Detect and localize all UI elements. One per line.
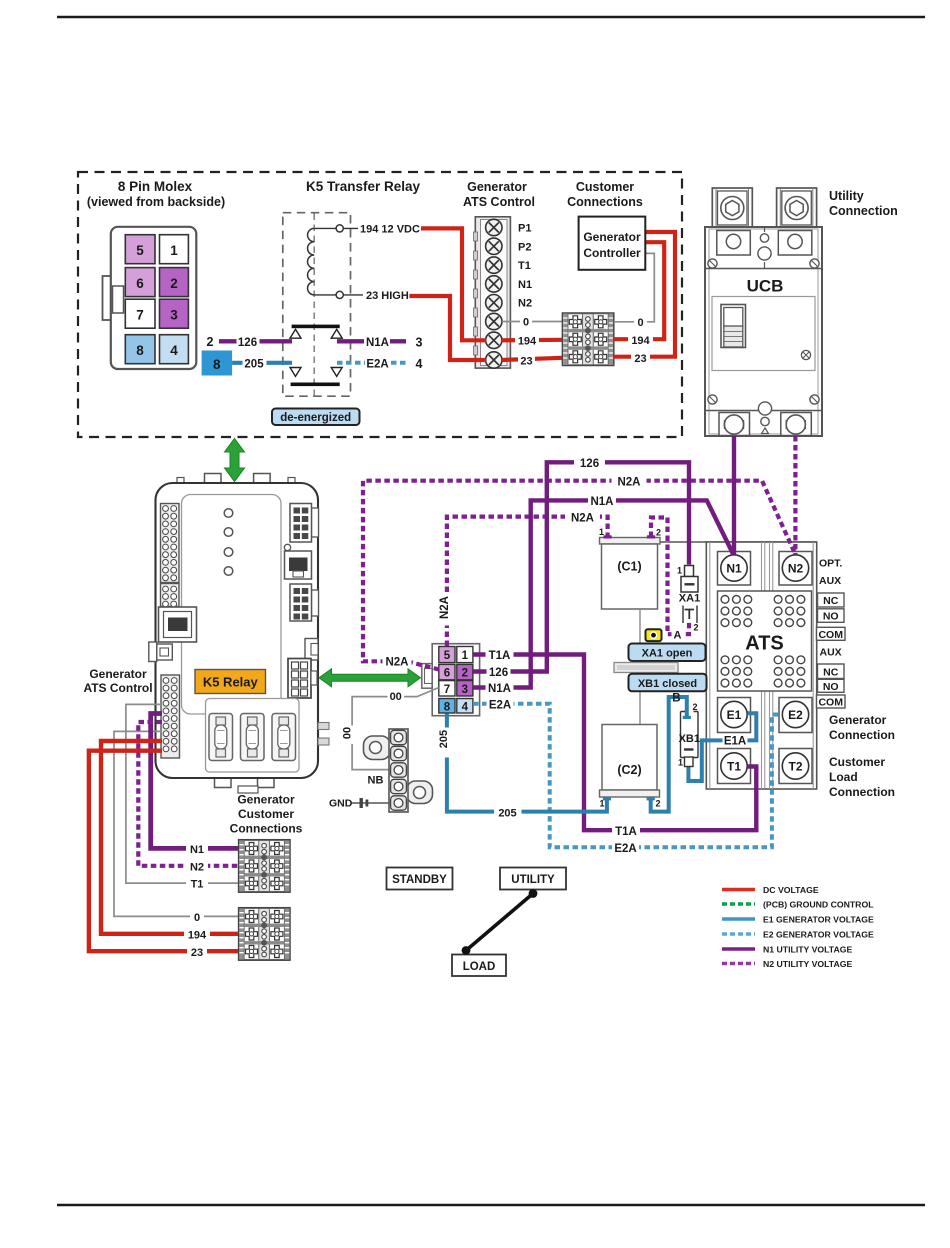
legend N2 utility voltage	[722, 959, 852, 969]
svg-text:N1A: N1A	[488, 683, 511, 695]
ATS terminal E1	[718, 698, 751, 733]
svg-text:194: 194	[631, 335, 650, 347]
board left tab	[149, 642, 173, 662]
svg-text:N1A: N1A	[366, 337, 389, 349]
svg-text:1: 1	[599, 527, 604, 537]
wire 126 from pin2 to relay	[219, 339, 292, 343]
indicator yellow	[646, 629, 662, 641]
callout de-energized	[272, 409, 360, 426]
label T1	[186, 876, 208, 890]
ATS terminal N2	[779, 552, 812, 586]
svg-text:UTILITY: UTILITY	[511, 874, 555, 886]
svg-text:(PCB) GROUND CONTROL: (PCB) GROUND CONTROL	[763, 899, 874, 909]
label N2A rotated	[440, 596, 454, 626]
relay K5 dashed outline	[283, 213, 351, 397]
board right connector A	[290, 504, 319, 543]
wire E1A net	[688, 713, 756, 781]
breaker UCB center pivot top	[758, 227, 771, 269]
wire 194 red	[101, 741, 239, 934]
breaker UCB corner screws	[708, 259, 819, 404]
svg-text:T1: T1	[518, 260, 531, 272]
wire N1A relay to pin3	[337, 339, 406, 343]
svg-text:0: 0	[194, 912, 200, 924]
svg-text:Generator: Generator	[829, 713, 887, 727]
C1 pin tabs	[604, 535, 612, 538]
ATS terminal N1	[718, 552, 751, 586]
label 126 stub	[487, 665, 511, 679]
terminal screw T1	[486, 257, 502, 273]
label N2A top2	[565, 510, 600, 524]
svg-text:3: 3	[416, 336, 423, 350]
svg-text:6: 6	[444, 668, 450, 680]
wire N1A net	[473, 500, 733, 687]
legend E2 generator voltage	[722, 929, 874, 939]
svg-text:N2: N2	[788, 562, 804, 576]
breaker UCB toggle	[721, 305, 746, 348]
node pin 8 highlight	[202, 351, 233, 376]
connector J molex body	[103, 227, 197, 369]
svg-text:194: 194	[518, 335, 537, 347]
svg-text:COM: COM	[818, 629, 843, 641]
svg-text:NO: NO	[823, 681, 839, 693]
label E1A	[723, 734, 748, 748]
label N1A stub	[486, 681, 514, 695]
svg-text:E2A: E2A	[366, 359, 388, 371]
label E2A	[365, 356, 389, 371]
svg-text:8: 8	[444, 701, 451, 713]
label 0 left	[520, 314, 532, 328]
svg-text:GND: GND	[329, 798, 353, 810]
svg-text:(C2): (C2)	[617, 763, 641, 777]
svg-text:3: 3	[170, 308, 178, 323]
svg-text:0: 0	[637, 317, 643, 329]
svg-text:00: 00	[342, 727, 354, 739]
svg-text:0: 0	[523, 317, 529, 329]
board controller PCB outline	[156, 474, 319, 794]
svg-text:205: 205	[438, 730, 450, 748]
terminal screw 0	[486, 313, 502, 329]
svg-text:2: 2	[694, 623, 699, 633]
page top rule	[57, 16, 925, 18]
svg-text:194 12 VDC: 194 12 VDC	[360, 224, 420, 236]
svg-text:Connection: Connection	[829, 728, 895, 742]
svg-text:STANDBY: STANDBY	[392, 874, 447, 886]
svg-text:Generator: Generator	[467, 180, 527, 194]
callout XB1 closed	[629, 674, 707, 692]
board right edge stubs	[318, 723, 329, 730]
wire 205 from pin8 to relay	[232, 361, 292, 365]
wire 23 HIGH red	[409, 296, 486, 360]
breaker UCB body	[705, 227, 822, 436]
svg-text:5: 5	[444, 650, 451, 662]
page bottom rule	[57, 1204, 925, 1206]
molex pin 1	[160, 235, 189, 264]
molex pin 5	[125, 235, 155, 264]
wire C2 pin2 to XB1	[651, 697, 687, 812]
label 194 right	[628, 333, 653, 347]
label 126 top	[574, 456, 605, 470]
switch position line	[462, 889, 538, 955]
svg-text:K5 Transfer Relay: K5 Transfer Relay	[306, 179, 421, 194]
breaker UCB bottom terminal right	[781, 413, 812, 436]
svg-text:N2: N2	[518, 298, 532, 310]
molex pin 7	[125, 299, 155, 328]
switch XA1	[677, 566, 700, 633]
label 126	[237, 333, 260, 348]
ATS terminal E2	[779, 698, 812, 733]
ATS container	[706, 542, 816, 789]
wire N1 purple	[151, 714, 239, 849]
svg-text:AUX: AUX	[819, 575, 841, 587]
svg-text:ATS: ATS	[745, 633, 784, 655]
svg-text:T1: T1	[191, 879, 204, 891]
svg-text:205: 205	[498, 808, 516, 820]
svg-text:K5 Relay: K5 Relay	[203, 675, 259, 690]
relay K5 coil	[308, 225, 363, 299]
svg-text:OPT.: OPT.	[819, 558, 842, 570]
terminal screw P2	[486, 238, 502, 254]
breaker UCB upper terminal left	[717, 231, 751, 256]
legend N1 utility voltage	[722, 944, 852, 954]
breaker UCB center pivot bottom	[758, 402, 771, 434]
svg-text:T1A: T1A	[489, 650, 511, 662]
ATS middle body	[718, 591, 812, 691]
terminal screw 194	[486, 332, 502, 348]
wire N2 from UCB dashed	[793, 436, 797, 554]
svg-text:N1 UTILITY VOLTAGE: N1 UTILITY VOLTAGE	[763, 944, 852, 954]
ground bus NB	[342, 688, 439, 813]
svg-text:00: 00	[390, 691, 402, 703]
wire 205 net	[447, 714, 607, 812]
fuse F3	[272, 714, 296, 761]
svg-text:(viewed from backside): (viewed from backside)	[87, 195, 225, 209]
svg-text:Connections: Connections	[567, 195, 643, 209]
label 205 rotated	[440, 728, 454, 758]
svg-text:T2: T2	[788, 760, 802, 774]
svg-text:8 Pin Molex: 8 Pin Molex	[118, 179, 193, 194]
svg-text:A: A	[674, 630, 682, 642]
relay K5 armature link	[313, 214, 315, 396]
wire 23 red	[89, 751, 239, 952]
svg-text:23: 23	[191, 947, 203, 959]
label N2A top1	[612, 474, 647, 488]
label 0 right	[634, 315, 647, 329]
plug pin 2	[457, 664, 473, 679]
svg-text:126: 126	[489, 667, 508, 679]
label T1A stub	[486, 648, 514, 662]
svg-text:Customer: Customer	[829, 755, 885, 769]
box UTILITY	[500, 868, 566, 890]
svg-text:Customer: Customer	[576, 180, 634, 194]
svg-text:XB1: XB1	[679, 733, 700, 745]
contactor C1	[600, 538, 661, 610]
C2 pin tabs	[603, 797, 611, 800]
label 23 right	[631, 351, 650, 365]
svg-text:1: 1	[678, 758, 683, 768]
arrow green vertical	[225, 439, 245, 482]
svg-text:P2: P2	[518, 241, 531, 253]
box Generator Controller	[579, 217, 646, 270]
svg-text:N2A: N2A	[385, 657, 408, 669]
board pilot circle	[284, 544, 290, 550]
svg-text:2: 2	[656, 799, 661, 809]
label 194 left	[515, 333, 539, 347]
molex pin 8	[125, 335, 155, 364]
svg-text:N2A: N2A	[617, 477, 640, 489]
dashed enclosure box	[78, 172, 682, 437]
label 194	[184, 927, 210, 941]
connector K5 plug body	[422, 644, 480, 716]
svg-text:Generator: Generator	[89, 667, 147, 681]
svg-text:T1: T1	[727, 760, 741, 774]
plug pin 3	[457, 681, 473, 696]
svg-text:B: B	[672, 693, 680, 705]
wire T1 gray	[126, 704, 239, 883]
svg-text:XA1 open: XA1 open	[642, 648, 693, 660]
label E2A bottom	[612, 841, 639, 855]
terminal screw N1	[486, 276, 502, 292]
svg-text:Generator: Generator	[583, 230, 641, 244]
breaker UCB lug left	[712, 188, 752, 228]
svg-text:E2A: E2A	[614, 843, 636, 855]
svg-text:3: 3	[462, 684, 468, 696]
svg-text:126: 126	[238, 337, 257, 349]
svg-text:N2A: N2A	[571, 513, 594, 525]
label N2	[186, 859, 208, 873]
label A	[672, 628, 684, 641]
svg-text:205: 205	[244, 359, 264, 371]
label 23 left	[518, 353, 535, 367]
box LOAD	[452, 955, 506, 977]
label N1A	[364, 334, 390, 349]
label 205	[243, 355, 267, 370]
board RJ jack left	[159, 607, 197, 642]
callout XA1 open	[629, 644, 706, 662]
svg-text:4: 4	[170, 343, 178, 358]
svg-text:ATS Control: ATS Control	[463, 195, 535, 209]
board lower left connector	[161, 675, 180, 758]
svg-text:7: 7	[136, 308, 144, 323]
svg-text:N1: N1	[726, 562, 742, 576]
terminal screw 23	[486, 352, 502, 368]
board left connector B	[161, 584, 180, 607]
svg-text:LOAD: LOAD	[463, 961, 496, 973]
svg-text:2: 2	[656, 528, 661, 538]
svg-text:Connection: Connection	[829, 785, 895, 799]
plug pin 6	[439, 664, 455, 679]
molex pin 3	[160, 299, 189, 328]
terminal screw P1	[486, 219, 502, 235]
svg-text:1: 1	[170, 243, 178, 258]
wire 194 strip to block	[502, 338, 562, 343]
legend E1 generator voltage	[722, 914, 874, 924]
plug pin 4	[457, 699, 473, 714]
terminal strip Generator ATS Control	[474, 217, 511, 368]
plug pin 7	[439, 681, 455, 696]
label E2A stub	[487, 697, 514, 711]
label 0	[190, 910, 204, 924]
breaker UCB bottom terminal left	[719, 413, 750, 436]
svg-text:E1A: E1A	[724, 736, 746, 748]
label N2A left	[383, 654, 412, 668]
svg-text:NC: NC	[823, 595, 839, 607]
breaker UCB screw	[801, 350, 810, 359]
terminal block generator customer 2	[239, 908, 290, 961]
breaker UCB panel	[712, 297, 815, 371]
svg-text:E2A: E2A	[489, 700, 511, 712]
svg-text:COM: COM	[818, 697, 843, 709]
svg-text:N2: N2	[190, 861, 204, 873]
svg-text:E2: E2	[788, 708, 803, 722]
molex pin 2	[160, 268, 189, 297]
svg-text:XA1: XA1	[679, 593, 700, 605]
label 2	[203, 332, 218, 348]
svg-text:(C1): (C1)	[617, 560, 641, 574]
board right connector B	[290, 584, 319, 621]
board K5 socket	[288, 659, 317, 699]
svg-text:E1 GENERATOR VOLTAGE: E1 GENERATOR VOLTAGE	[763, 914, 874, 924]
relay K5 label box	[195, 670, 266, 694]
svg-text:23: 23	[634, 353, 646, 365]
svg-text:P1: P1	[518, 223, 531, 235]
label N1	[186, 842, 208, 856]
mechanism bar	[614, 663, 678, 673]
board fuse area	[206, 699, 300, 773]
label N1A top	[588, 494, 616, 508]
wire 0 gray	[114, 731, 239, 916]
legend PCB ground control	[722, 899, 874, 909]
svg-text:Connection: Connection	[829, 204, 898, 218]
wire 0 block to controller	[614, 253, 655, 321]
board RJ jack right	[285, 551, 312, 579]
svg-text:N2A: N2A	[439, 596, 451, 619]
wire 23 block to controller	[614, 232, 675, 357]
ground GND	[329, 798, 389, 810]
molex pin 4	[160, 335, 189, 364]
plug pin 8	[439, 699, 455, 714]
svg-text:8: 8	[213, 357, 221, 372]
wire N1 from UCB	[732, 436, 736, 554]
svg-text:E2 GENERATOR VOLTAGE: E2 GENERATOR VOLTAGE	[763, 929, 874, 939]
legend DC voltage	[722, 885, 819, 895]
relay contact bar bottom	[291, 383, 340, 387]
svg-text:T1A: T1A	[615, 826, 637, 838]
svg-text:DC VOLTAGE: DC VOLTAGE	[763, 885, 819, 895]
svg-text:194: 194	[188, 929, 207, 941]
svg-text:N2 UTILITY VOLTAGE: N2 UTILITY VOLTAGE	[763, 959, 852, 969]
board LEDs	[224, 509, 233, 576]
plug pin 1	[457, 647, 473, 663]
svg-text:ATS Control: ATS Control	[83, 681, 152, 695]
wire N2A net upper	[363, 481, 795, 670]
fuse F1	[209, 714, 233, 761]
svg-text:2: 2	[207, 335, 214, 349]
svg-text:Controller: Controller	[583, 246, 641, 260]
arrow green horizontal	[319, 669, 421, 687]
svg-text:6: 6	[136, 276, 144, 291]
svg-text:de-energized: de-energized	[280, 412, 351, 424]
svg-text:Connections: Connections	[230, 822, 303, 836]
switch XB1	[672, 693, 700, 768]
box STANDBY	[387, 868, 453, 890]
svg-text:XB1 closed: XB1 closed	[638, 678, 697, 690]
breaker UCB lug right	[777, 188, 817, 228]
molex pin 6	[125, 268, 155, 297]
svg-text:23: 23	[520, 356, 532, 368]
svg-text:NC: NC	[823, 666, 839, 678]
label 205 bottom	[494, 805, 522, 819]
svg-text:N1A: N1A	[590, 496, 613, 508]
svg-text:Utility: Utility	[829, 189, 864, 203]
wire 194 block to controller	[614, 242, 664, 339]
wire N2 purple dashed	[138, 722, 238, 866]
label 23	[187, 945, 207, 959]
board right notch	[305, 639, 318, 661]
svg-text:Customer: Customer	[238, 807, 294, 821]
svg-text:N1: N1	[518, 279, 532, 291]
svg-text:4: 4	[462, 701, 469, 713]
svg-text:1: 1	[599, 799, 604, 809]
relay contact N.C. arrows down	[290, 368, 342, 377]
svg-text:1: 1	[677, 566, 682, 576]
svg-text:2: 2	[170, 276, 178, 291]
wire 0 strip to block	[502, 321, 562, 323]
ATS enclosure top line	[600, 541, 817, 543]
terminal screw N2	[486, 295, 502, 311]
svg-text:E1: E1	[727, 708, 742, 722]
svg-text:NB: NB	[368, 775, 384, 787]
mechanism link line	[639, 609, 641, 725]
svg-text:126: 126	[580, 458, 599, 470]
terminal block customer mid	[562, 313, 613, 366]
wire 23 strip to block	[502, 358, 562, 360]
wire N2A net pin5 to C1	[447, 517, 608, 646]
wire T1A net	[473, 655, 756, 831]
terminal block generator customer 1	[239, 840, 290, 893]
fuse F2	[241, 714, 265, 761]
breaker UCB upper terminal right	[778, 231, 812, 256]
wire 194 12VDC red	[421, 228, 486, 340]
svg-text:2: 2	[462, 668, 468, 680]
board left connector A	[161, 504, 180, 583]
svg-text:8: 8	[136, 343, 144, 358]
svg-text:23 HIGH: 23 HIGH	[366, 290, 409, 302]
svg-text:Generator: Generator	[237, 793, 295, 807]
svg-text:N1: N1	[190, 844, 204, 856]
wire E2A relay to pin4	[337, 361, 406, 365]
relay contact N.O. arrows up	[290, 329, 342, 338]
svg-text:Load: Load	[829, 770, 858, 784]
ATS aux labels	[817, 558, 846, 709]
contactor C2	[600, 725, 660, 798]
svg-text:AUX: AUX	[820, 647, 842, 659]
svg-text:UCB: UCB	[747, 277, 784, 296]
wire E2A net	[473, 704, 782, 848]
label T1A bottom	[612, 824, 640, 838]
svg-text:7: 7	[444, 684, 450, 696]
relay contact bar top	[292, 325, 340, 329]
ATS terminal T2	[779, 749, 812, 784]
XB1 pin2 tab	[683, 716, 691, 719]
wire 126 net	[473, 462, 689, 671]
svg-text:2: 2	[693, 702, 698, 712]
plug pin 5	[439, 647, 455, 663]
svg-text:5: 5	[136, 243, 144, 258]
ATS terminal T1	[718, 749, 751, 784]
wire C1 pin2 to XA1 pin2	[651, 518, 689, 635]
svg-text:1: 1	[462, 650, 469, 662]
svg-text:4: 4	[416, 357, 423, 371]
